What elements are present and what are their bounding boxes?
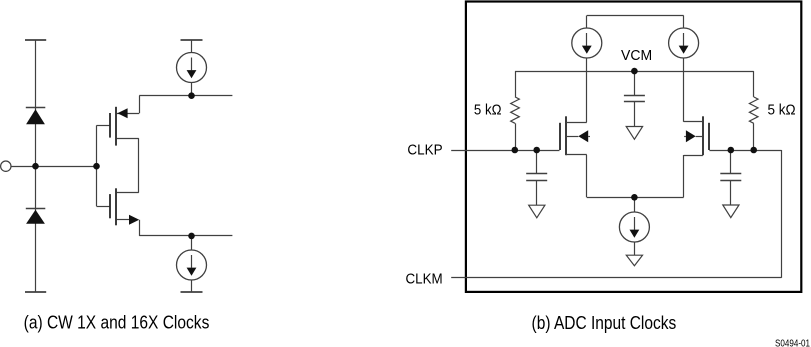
svg-text:(a) CW 1X and 16X Clocks: (a) CW 1X and 16X Clocks [24,313,210,333]
svg-text:S0494-01: S0494-01 [775,339,810,347]
svg-text:(b) ADC Input Clocks: (b) ADC Input Clocks [532,313,677,333]
svg-text:VCM: VCM [621,47,652,64]
svg-text:5 kΩ: 5 kΩ [767,103,795,119]
svg-text:CLKP: CLKP [407,142,442,159]
svg-text:CLKM: CLKM [406,271,443,288]
svg-text:5 kΩ: 5 kΩ [474,103,502,119]
